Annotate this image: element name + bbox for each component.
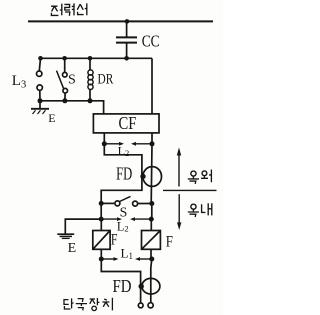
terminal (right) bbox=[148, 303, 153, 308]
node: L2 row left bbox=[99, 217, 104, 222]
inductor DR (drain coil) bbox=[88, 58, 93, 101]
wire: right column S row to L2 row bbox=[151, 204, 153, 220]
ground E (lower) bbox=[57, 234, 74, 238]
svg-text:CC: CC bbox=[142, 31, 160, 50]
svg-text:F: F bbox=[166, 234, 174, 251]
fuse F (right): box with diagonal bbox=[142, 231, 161, 250]
divider line outdoor/indoor bbox=[163, 189, 217, 191]
transformer FD1 (line transformer ring) bbox=[143, 167, 162, 187]
block CF (filter) bbox=[93, 114, 159, 133]
node: wire B / S bbox=[62, 98, 67, 103]
ground E (upper left) bbox=[31, 101, 49, 114]
switch S (lower) bbox=[101, 196, 152, 206]
switch arm bbox=[120, 196, 131, 201]
node: CF out left bbox=[102, 141, 107, 146]
wire B: horizontal bus y=100.8, turns down into CF bbox=[40, 101, 104, 114]
arrow left (L2 row) bbox=[130, 217, 151, 221]
wire: left path to terminal (down, right, down) bbox=[101, 259, 140, 303]
svg-text:FD: FD bbox=[113, 276, 132, 296]
svg-text:S: S bbox=[68, 73, 76, 88]
node: S row right bbox=[149, 201, 154, 206]
node: wire A / CC column bbox=[124, 56, 129, 61]
svg-text:FD: FD bbox=[116, 164, 132, 184]
wire: left path CF to lower section (down, right, down, left, down) bbox=[101, 144, 142, 204]
switch S (upper) bbox=[57, 58, 68, 101]
arrow right (L2 current, upper row) bbox=[104, 142, 124, 146]
svg-text:S: S bbox=[120, 205, 128, 220]
node: L1 row left bbox=[99, 257, 104, 262]
node: wire A / S branch bbox=[62, 56, 67, 61]
arrow down (indoor) bbox=[177, 194, 181, 230]
wire: left F top stub bbox=[100, 219, 102, 230]
svg-text:DR: DR bbox=[98, 71, 114, 87]
node: wire A / DR branch bbox=[88, 56, 93, 61]
wire: wire A right end down to CF bbox=[151, 58, 153, 114]
wire: CF bottom left stub bbox=[103, 133, 105, 144]
wire A: horizontal bus y=58.3 bbox=[41, 57, 153, 59]
node: CF out right bbox=[150, 141, 155, 146]
wire: CF bottom right stub bbox=[151, 133, 153, 144]
svg-text:E: E bbox=[48, 111, 55, 125]
wire: tap down to CC bbox=[126, 21, 128, 36]
node: S row left bbox=[99, 201, 104, 206]
fuse F (left): box with diagonal bbox=[93, 231, 110, 250]
contact L3 (two open terminals) bbox=[37, 58, 43, 101]
node: FD2 tangent junction bbox=[139, 284, 144, 289]
wire: left column S row to L2 row bbox=[100, 203, 102, 219]
arrow right (L2 row) bbox=[101, 217, 122, 221]
wire: power line bbox=[28, 20, 213, 22]
wire: right column CF through FD1 down to S row bbox=[150, 144, 153, 204]
svg-text:CF: CF bbox=[119, 113, 137, 133]
node: power line tap junction bbox=[125, 19, 130, 24]
label 전력선 (power line) bbox=[51, 3, 87, 15]
arrow up (outdoor) bbox=[177, 147, 181, 186]
wire: right F top stub bbox=[150, 219, 152, 230]
arrow left (L1 row) bbox=[135, 257, 152, 261]
terminal (left) bbox=[138, 303, 143, 308]
arrow left (L2 current, upper row) bbox=[131, 142, 152, 146]
node: L1 row right bbox=[149, 257, 154, 262]
switch arm bbox=[57, 71, 64, 89]
wire: left F bottom stub bbox=[100, 249, 102, 259]
node: L2 row right bbox=[149, 217, 154, 222]
node: wire B / L3 bbox=[38, 98, 43, 103]
wire: ground branch from L2 row bbox=[65, 219, 101, 234]
label 옥외 (outdoor) bbox=[188, 170, 212, 184]
wire: CC to wire A bbox=[126, 44, 128, 59]
arrow right (L1 row) bbox=[101, 257, 118, 261]
wire: right column through FD2 to terminal bbox=[151, 259, 152, 303]
node: FD1 tangent junction bbox=[140, 174, 145, 179]
node: wire A / L3 branch bbox=[38, 56, 43, 61]
label 옥내 (indoor) bbox=[188, 203, 212, 217]
capacitor CC bbox=[116, 37, 137, 58]
node: wire B / DR bbox=[88, 98, 93, 103]
transformer FD2 (line transformer ring) bbox=[142, 278, 160, 294]
wire: right F bottom stub bbox=[150, 249, 152, 259]
svg-text:F: F bbox=[111, 232, 118, 249]
svg-text:E: E bbox=[68, 241, 77, 256]
label 단국장치 (terminal equipment) bbox=[64, 298, 112, 311]
